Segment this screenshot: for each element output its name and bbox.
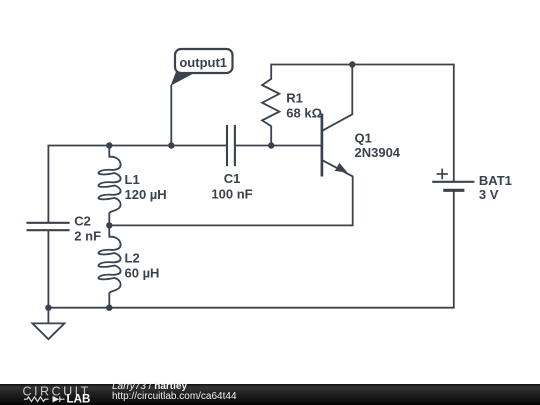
svg-text:BAT1: BAT1	[479, 173, 512, 188]
svg-text:120 µH: 120 µH	[125, 187, 167, 202]
svg-text:C2: C2	[74, 214, 91, 229]
svg-text:68 kΩ: 68 kΩ	[286, 106, 322, 121]
svg-text:C1: C1	[224, 171, 241, 186]
svg-text:L2: L2	[125, 251, 140, 266]
svg-text:R1: R1	[286, 90, 303, 105]
svg-text:100 nF: 100 nF	[211, 187, 252, 202]
svg-text:Q1: Q1	[355, 131, 372, 146]
svg-text:L1: L1	[125, 172, 140, 187]
svg-text:3 V: 3 V	[479, 187, 499, 202]
svg-text:2 nF: 2 nF	[74, 229, 101, 244]
svg-text:2N3904: 2N3904	[355, 145, 401, 160]
svg-text:60 µH: 60 µH	[125, 266, 160, 281]
svg-text:LAB: LAB	[67, 393, 91, 405]
svg-text:output1: output1	[179, 55, 227, 70]
